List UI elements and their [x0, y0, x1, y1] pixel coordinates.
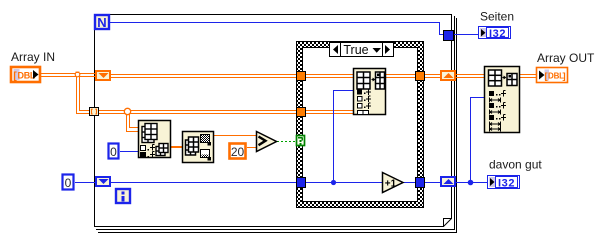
N count terminal: [95, 15, 109, 30]
junction dot right of loop: [468, 180, 474, 186]
constant 0 (index): [109, 144, 119, 160]
wire: comparator to case selector (boolean dotted): [277, 141, 296, 143]
svg-text:20: 20: [231, 145, 245, 159]
case selector label "True": [330, 43, 394, 58]
constant 20: [230, 144, 246, 160]
tunnel: case right blue: [416, 178, 425, 188]
function Replace Array Subset (inside case): [354, 69, 386, 115]
terminal Array IN [DBL]: [11, 67, 40, 82]
svg-text:+1: +1: [385, 178, 397, 189]
svg-text:davon gut: davon gut: [489, 158, 542, 172]
for loop stacked shadow line 2: [98, 18, 457, 233]
wire: Array IN 2D-array wire to left shift register: [41, 73, 536, 78]
svg-text:I32: I32: [489, 28, 506, 40]
tunnel: case left orange top: [297, 72, 306, 81]
function Index Array: [139, 121, 171, 159]
indicator davon gut I32: [488, 176, 520, 190]
indicator Array OUT [DBL]: [537, 68, 568, 83]
wire: branch down from Array IN wire: [76, 76, 353, 114]
auto-indexing tunnel []: [90, 108, 99, 116]
junction dot inside case: [331, 180, 336, 185]
svg-text:0: 0: [110, 145, 117, 159]
constant 0 (shift register init): [63, 175, 74, 191]
function Array Max & Min: [183, 132, 214, 163]
tunnel: loop border blue (Seiten): [444, 31, 454, 41]
tunnel: case left orange lower: [297, 108, 306, 117]
svg-text:Array OUT: Array OUT: [537, 51, 595, 65]
svg-text:N: N: [97, 15, 106, 30]
shift register left blue: [96, 177, 110, 186]
wire: blue branch up to Replace Array Subset: [333, 90, 353, 183]
case structure border: [297, 42, 424, 208]
svg-text:0: 0: [65, 176, 72, 190]
tunnel: case left blue: [297, 178, 306, 188]
wire: N terminal to Seiten tunnel: [110, 22, 479, 35]
for loop border: [94, 14, 452, 227]
svg-text:Array IN: Array IN: [11, 50, 55, 64]
svg-text:Seiten: Seiten: [480, 10, 514, 24]
svg-text:I32: I32: [498, 177, 515, 189]
function Reshape Array: [485, 67, 520, 133]
for loop folded corner: [443, 218, 452, 227]
function increment +1 (inside case): [383, 173, 404, 193]
for loop stacked shadow line 1: [96, 16, 455, 230]
indicator Seiten I32: [479, 27, 511, 40]
junction ring on lower array wire: [124, 108, 130, 114]
svg-text:True: True: [343, 43, 368, 57]
svg-text:]: ]: [563, 71, 566, 82]
wire: iteration counter bottom blue wire: [75, 182, 488, 183]
rows: [489, 91, 506, 132]
wire: branch down to Index Array input: [126, 113, 138, 132]
function Greater? comparator: [257, 132, 277, 152]
shift register right orange: [441, 71, 455, 80]
wire: constant 0 to Index Array index input: [120, 151, 138, 152]
wire: blue branch up to Reshape Array: [470, 97, 484, 183]
wire: Array Max&Min max output to comparator: [214, 135, 256, 136]
tunnel: case right orange: [416, 72, 425, 81]
wire: Index Array to Array Max&Min (1D array): [171, 146, 182, 148]
i iteration terminal: [116, 189, 130, 203]
tunnel: case selector ?: [297, 136, 305, 146]
junction ring on Array IN wire: [75, 72, 80, 77]
shift register right blue: [441, 177, 455, 186]
shift register left orange: [96, 71, 110, 80]
wire: constant 20 to comparator: [247, 147, 256, 148]
